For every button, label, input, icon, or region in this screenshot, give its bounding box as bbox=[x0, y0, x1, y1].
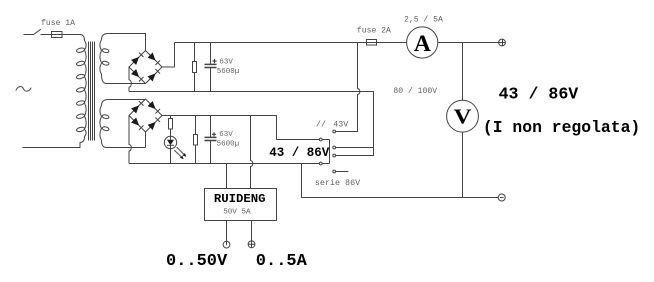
svg-text:0..50V: 0..50V bbox=[166, 252, 228, 271]
svg-text:63V: 63V bbox=[219, 131, 233, 139]
svg-text:fuse 1A: fuse 1A bbox=[41, 19, 75, 28]
svg-text:43 / 86V: 43 / 86V bbox=[499, 85, 579, 104]
svg-text:80 / 100V: 80 / 100V bbox=[393, 87, 437, 96]
svg-text:5600µ: 5600µ bbox=[217, 140, 240, 148]
svg-text:0..5A: 0..5A bbox=[256, 252, 308, 271]
svg-text:(I non regolata): (I non regolata) bbox=[483, 118, 640, 137]
svg-text:63V: 63V bbox=[219, 58, 233, 66]
svg-text:fuse 2A: fuse 2A bbox=[357, 26, 391, 35]
svg-text:43 / 86V: 43 / 86V bbox=[269, 146, 330, 160]
svg-text:V: V bbox=[454, 105, 472, 129]
svg-text:50V 5A: 50V 5A bbox=[223, 209, 251, 217]
svg-text:serie 86V: serie 86V bbox=[315, 178, 360, 188]
svg-text://: // bbox=[316, 120, 326, 130]
svg-text:A: A bbox=[414, 31, 431, 57]
svg-text:5600µ: 5600µ bbox=[217, 68, 240, 76]
svg-text:43V: 43V bbox=[333, 120, 348, 130]
svg-text:RUIDENG: RUIDENG bbox=[214, 192, 266, 206]
svg-text:2,5 / 5A: 2,5 / 5A bbox=[404, 15, 443, 24]
